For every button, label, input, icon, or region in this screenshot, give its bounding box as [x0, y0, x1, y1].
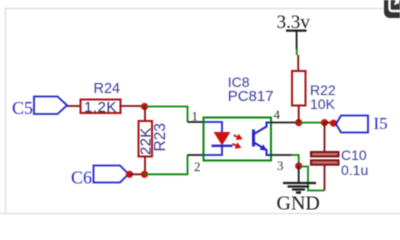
svg-text:GND: GND: [277, 193, 320, 215]
emission arrow 2: [231, 141, 243, 151]
ground bar 4: [296, 191, 301, 194]
resistor R22 lead top: [297, 55, 299, 71]
port C6: [94, 166, 129, 183]
wire R24 to node A: [120, 105, 145, 107]
wire node A to bend (green): [145, 107, 188, 123]
svg-text:1: 1: [192, 109, 199, 124]
wire node D to I5 (dark red): [325, 122, 336, 124]
resistor R22 lead bottom: [298, 106, 300, 123]
svg-text:C10: C10: [341, 147, 367, 163]
svg-text:I5: I5: [374, 114, 388, 133]
svg-text:1.2K: 1.2K: [84, 99, 117, 116]
resistor R22 body: [292, 71, 306, 106]
junction node D: [321, 119, 328, 126]
junction node A: [141, 103, 148, 110]
power stem green segment: [296, 49, 298, 55]
svg-text:R24: R24: [94, 81, 121, 97]
wire pin3 green bend to node E: [292, 155, 299, 164]
resistor R23 body: [139, 121, 153, 157]
svg-text:PC817: PC817: [228, 88, 274, 105]
LED cathode wire inside: [204, 146, 222, 155]
svg-text:10K: 10K: [310, 96, 336, 112]
op-amp/optocoupler U1 box IC8: [204, 118, 272, 161]
junction node B: [141, 171, 148, 178]
resistor R24 body: [81, 100, 121, 114]
junction node E: [295, 162, 302, 169]
LED cathode bar: [212, 145, 233, 147]
wire C5 to R24: [67, 105, 81, 107]
wire node C to node D (green): [299, 122, 325, 124]
wire node E to cap bottom (green): [300, 167, 325, 191]
power stem black: [296, 31, 298, 49]
overlay expand icon top-right: [384, 0, 400, 18]
wire node B to bend (green): [145, 155, 188, 174]
svg-text:C5: C5: [12, 98, 33, 118]
transistor emitter arrowhead: [260, 144, 267, 150]
junction node C: [295, 119, 302, 126]
junction at C6 tip: [126, 171, 133, 178]
resistor R23 lead bottom: [144, 157, 146, 175]
junction at I5 tip: [330, 120, 337, 127]
emission arrow 1: [232, 132, 244, 142]
ground bar 1: [283, 182, 316, 184]
svg-text:R23: R23: [152, 123, 169, 151]
wire pin3 black: [271, 154, 292, 156]
svg-text:0.1u: 0.1u: [341, 162, 368, 178]
ground bar 2: [288, 185, 310, 187]
wire bend to pin1 (black): [188, 121, 205, 123]
LED anode wire inside: [204, 122, 222, 133]
capacitor C10 plate 1: [311, 152, 339, 156]
svg-text:3: 3: [277, 158, 284, 173]
svg-text:2: 2: [194, 159, 201, 174]
power bar: [286, 30, 307, 32]
ground stem: [298, 166, 300, 182]
wire bend to pin2 (black): [188, 154, 205, 156]
phototransistor Q: [254, 123, 271, 156]
capacitor C10 lead top: [324, 123, 326, 152]
svg-text:4: 4: [274, 107, 281, 122]
wire C6 to node B: [130, 173, 145, 175]
svg-text:C6: C6: [71, 168, 92, 188]
ground bar 3: [292, 188, 305, 190]
capacitor C10 plate 2: [311, 160, 339, 164]
capacitor C10 lead bottom: [324, 165, 326, 191]
port I5: [336, 116, 368, 133]
resistor R23 lead top: [144, 107, 146, 122]
wire pin4 to node C (black): [271, 122, 299, 124]
port C5: [34, 97, 67, 115]
LED triangle: [215, 133, 230, 145]
